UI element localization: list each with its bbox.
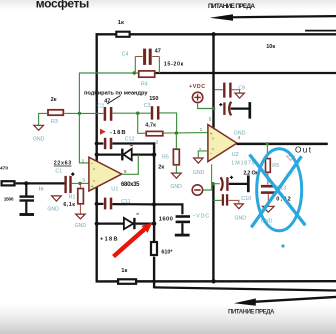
svg-text:R4: R4 [141, 82, 148, 88]
junction dot +VDC [212, 107, 215, 110]
capacitor C4 [135, 49, 159, 73]
junction dot R4 left [133, 71, 136, 74]
svg-text:>: > [212, 146, 215, 151]
svg-text:3: 3 [82, 178, 85, 184]
svg-text:2: 2 [82, 159, 85, 165]
svg-text:LM1875: LM1875 [232, 161, 255, 167]
svg-text:47: 47 [155, 49, 161, 55]
wire U1 pin3 [79, 182, 89, 184]
svg-text:GND: GND [234, 130, 246, 136]
junction dot left bus / C12 [95, 141, 99, 145]
wire C3 node down to 4.7k [138, 113, 146, 133]
junction dots C11 row [95, 202, 99, 206]
capacitor 1500 (input shunt) [20, 184, 35, 215]
junction dots diode D1 row [95, 153, 99, 157]
wire feedback vertical to input node [78, 72, 80, 113]
red marker triangle [100, 129, 106, 135]
svg-text:In: In [39, 186, 44, 192]
svg-text:1к: 1к [118, 20, 124, 26]
resistor 4.7k [146, 131, 163, 135]
capacitor C9 [215, 83, 240, 98]
ground C9 [235, 93, 244, 98]
wire feedback row black [156, 72, 336, 74]
svg-text:10к: 10к [266, 44, 275, 50]
svg-text:680х35: 680х35 [121, 182, 140, 188]
power symbol +VDC [192, 92, 202, 102]
svg-text:R1: R1 [69, 195, 76, 201]
wire U2 pin2 to ground [198, 151, 208, 158]
svg-text:1500: 1500 [4, 197, 14, 203]
diode D2 [97, 214, 154, 229]
wire U2 pin3 down [211, 164, 213, 183]
svg-text:47: 47 [104, 99, 110, 105]
svg-text:GND: GND [193, 170, 205, 176]
junction dot U1 pin3 [78, 182, 81, 185]
wire 4.7k to U2 input [164, 132, 208, 135]
wire right bus [153, 142, 155, 288]
wire left bus [95, 33, 97, 281]
junction dot output tap [266, 142, 269, 145]
wire bottom A [96, 280, 336, 283]
wire C12 row [97, 142, 156, 144]
wire R3 left to ground [39, 113, 48, 125]
svg-text:C10: C10 [241, 196, 251, 202]
resistor R5 (zobel, crossed out) [266, 144, 271, 185]
ground R1 [76, 214, 86, 219]
ground U2 pin2 [194, 158, 203, 163]
svg-text:ПИТАНИЕ ПРЕДА: ПИТАНИЕ ПРЕДА [208, 3, 255, 10]
wire U1 pin2 [79, 113, 89, 162]
svg-text:610*: 610* [161, 250, 173, 256]
junction dot C3 node [136, 112, 139, 115]
op-amp U1 [89, 157, 122, 191]
svg-text:5: 5 [209, 117, 212, 123]
ground C10 [234, 204, 243, 209]
ground C13 [263, 206, 275, 212]
blue dot [281, 244, 284, 247]
junction dot input [24, 181, 28, 185]
red annotation arrow [114, 223, 153, 257]
resistor 1k (top) [116, 32, 129, 37]
svg-text:2: 2 [199, 147, 202, 153]
svg-text:+: + [91, 184, 94, 190]
svg-text:1600: 1600 [159, 216, 173, 222]
svg-text:6,1к: 6,1к [63, 202, 75, 208]
diode D1 [97, 146, 154, 161]
resistor R1 [78, 183, 84, 214]
capacitor C12 [105, 138, 111, 149]
svg-text:GND: GND [75, 223, 87, 229]
svg-text:4,7к: 4,7к [145, 123, 156, 129]
junction dot input net [78, 112, 81, 115]
capacitor C2 [105, 107, 111, 121]
svg-text:U1: U1 [111, 187, 118, 193]
resistor R5 2k [173, 149, 179, 165]
wire +VDC to power bus [198, 103, 214, 108]
svg-text:>: > [212, 136, 215, 141]
svg-text:+VDC: +VDC [189, 84, 205, 90]
faint ground marks right of R5 [285, 156, 297, 177]
capacitor C10 [213, 194, 239, 205]
junction dot R5 node [175, 131, 178, 134]
op-amp U2 [208, 125, 237, 162]
wire power bus upper [212, 33, 214, 128]
svg-text:1: 1 [200, 127, 203, 133]
wire input net row [64, 112, 103, 114]
svg-text:150: 150 [149, 96, 158, 102]
svg-text:C3: C3 [144, 103, 151, 109]
svg-text:C2: C2 [97, 104, 104, 110]
resistor 610 [151, 242, 157, 255]
svg-text:C12: C12 [125, 136, 135, 142]
ground R3 [34, 125, 44, 130]
wire bottom B [154, 287, 336, 290]
power symbol -VDC [192, 185, 202, 195]
svg-text:>: > [93, 167, 96, 172]
svg-text:GND: GND [47, 206, 59, 212]
wire C3 right to U2 input row [159, 113, 176, 133]
junction dot bottom power bus [211, 279, 215, 283]
svg-text:2к: 2к [51, 97, 57, 103]
ground near C1 [52, 196, 62, 201]
svg-text:2: 2 [156, 140, 159, 146]
svg-text:R5: R5 [272, 163, 279, 169]
pointer line [107, 96, 121, 105]
svg-text:-18В: -18В [110, 130, 126, 136]
svg-text:R3: R3 [51, 119, 58, 125]
svg-text:GND: GND [170, 184, 182, 190]
resistor R4 [139, 71, 155, 77]
wire U2 output [237, 143, 328, 146]
blue cross annotation over zobel [250, 149, 306, 231]
capacitor 1600 [175, 217, 190, 236]
arrow to preamp supply (bottom) [234, 297, 336, 306]
arrow to preamp supply (top) [210, 14, 336, 20]
resistor 1k (bottom) [118, 279, 136, 284]
svg-text:GND: GND [235, 215, 247, 221]
ground R5 2k [172, 173, 182, 178]
wire U1 output feedback [122, 155, 139, 175]
wire C11 row [97, 203, 154, 206]
wire power bus lower [212, 183, 214, 282]
junction dot top wire / power bus [211, 32, 215, 36]
svg-text:C9: C9 [238, 86, 245, 92]
svg-text:U2: U2 [232, 152, 239, 158]
capacitor C3 [152, 106, 158, 119]
capacitor C13 (zobel, crossed out) [261, 186, 276, 206]
wire input row [16, 182, 65, 184]
svg-text:+18В: +18В [100, 237, 118, 243]
svg-text:1к: 1к [121, 268, 127, 274]
svg-text:подбирать по меандру: подбирать по меандру [84, 89, 148, 96]
svg-text:2к: 2к [158, 165, 164, 171]
svg-text:Out: Out [295, 146, 312, 155]
svg-text:470: 470 [0, 165, 8, 171]
svg-text:C11: C11 [121, 199, 131, 205]
junction dots diode D2 row [95, 222, 99, 226]
capacitor C1 [66, 172, 79, 193]
svg-text:>: > [93, 179, 96, 184]
resistor R3 [48, 110, 63, 115]
svg-text:−VDC: −VDC [192, 213, 209, 219]
svg-text:C1: C1 [55, 168, 62, 174]
capacitor C11 [105, 198, 111, 210]
wire -VDC to bus [203, 184, 212, 190]
svg-text:15-20к: 15-20к [164, 62, 184, 68]
wire feedback row green [79, 72, 137, 74]
svg-text:C4: C4 [122, 52, 129, 58]
capacitor electrolytic (bottom rail) [211, 175, 248, 192]
resistor 470 (input) [2, 181, 15, 185]
wire branch to 1600 cap [154, 204, 182, 214]
svg-text:GND: GND [33, 137, 45, 143]
svg-text:R5: R5 [162, 155, 169, 161]
wire top feedback bus [96, 31, 336, 35]
wire C2 to C3 [112, 112, 151, 114]
svg-text:мосфеты: мосфеты [36, 0, 90, 10]
capacitor electrolytic (top rail) [219, 102, 250, 119]
svg-text:−: − [210, 151, 213, 157]
